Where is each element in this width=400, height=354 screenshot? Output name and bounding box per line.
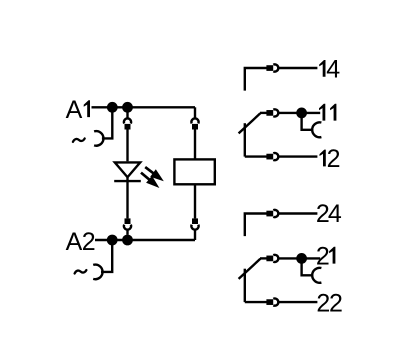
svg-text:2: 2 [329,290,343,318]
svg-text:2: 2 [327,145,341,173]
svg-text:A: A [66,228,83,256]
svg-text:4: 4 [326,56,340,84]
svg-text:2: 2 [316,242,330,270]
svg-text:4: 4 [328,200,342,228]
svg-text:2: 2 [82,228,96,256]
svg-text:A: A [66,96,83,124]
